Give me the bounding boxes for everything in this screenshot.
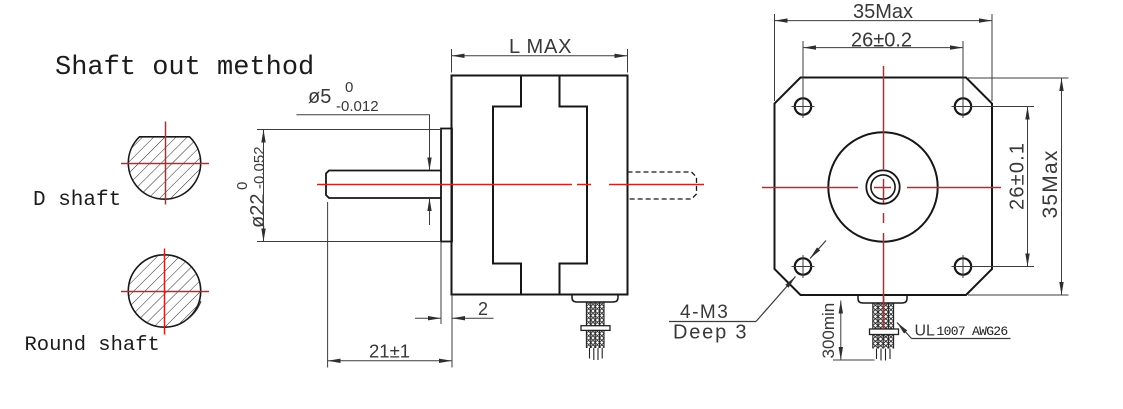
dimension 21+-1 extension line: [327, 202, 329, 368]
dimension 26+-0.1 line: [1027, 107, 1029, 267]
svg-text:Round shaft: Round shaft: [25, 334, 160, 357]
svg-text:0: 0: [234, 182, 251, 190]
front shaft: [326, 171, 441, 199]
dimension 2 extension lines: [441, 242, 452, 368]
svg-text:26±0.1: 26±0.1: [1007, 142, 1029, 210]
motor body side view: [452, 76, 628, 295]
svg-text:UL: UL: [915, 323, 936, 340]
Round shaft section outline: [128, 255, 200, 327]
dimension 26+-0.1 extension lines: [968, 107, 1035, 267]
front view centerline through wires overlay: [883, 295, 885, 329]
dimension phi22 extension lines: [257, 130, 441, 242]
Round shaft stray arc: [183, 301, 201, 322]
front view centerline vertical: [883, 66, 885, 338]
svg-text:ø22: ø22: [247, 194, 269, 228]
svg-text:Shaft out method: Shaft out method: [55, 53, 314, 83]
label 4-M3 underline: [669, 321, 756, 323]
svg-text:2: 2: [478, 299, 488, 319]
front view wire bundle braid: [873, 303, 894, 349]
side view cable band: [581, 326, 610, 331]
D shaft centerline horizontal: [121, 163, 209, 165]
svg-text:-0.012: -0.012: [336, 98, 379, 115]
D shaft hatch: [124, 122, 206, 202]
mounting hole bottom-right: [952, 255, 975, 278]
svg-text:L MAX: L MAX: [509, 36, 572, 58]
front view cable band: [870, 329, 899, 335]
shaft boss ring outer: [866, 170, 899, 203]
side view wire bundle braid: [586, 302, 604, 348]
side view centerline: [317, 184, 704, 186]
dimension 21+-1 line: [328, 360, 452, 362]
svg-text:1007 AWG26: 1007 AWG26: [937, 324, 1008, 339]
D shaft section outline: [128, 137, 200, 199]
dimension 300min line: [840, 301, 842, 361]
label 4-M3 leader lower: [756, 277, 796, 322]
front raised circle: [828, 132, 937, 241]
svg-text:21±1: 21±1: [369, 341, 410, 362]
dimension 300min bottom reference line: [833, 359, 875, 361]
front view lead wires: [877, 349, 891, 361]
svg-text:ø5: ø5: [308, 86, 331, 108]
front view centerline horizontal: [762, 187, 1001, 189]
svg-text:0: 0: [345, 79, 353, 96]
side view wire grommet: [572, 295, 618, 303]
motor body inner contour right: [560, 76, 588, 295]
dimension 35Max top extension lines: [775, 14, 993, 101]
dimension L MAX extension lines: [452, 49, 628, 73]
svg-text:4-M3: 4-M3: [680, 302, 729, 323]
label 4-M3 leader upper: [810, 241, 826, 259]
Round shaft hatch: [124, 251, 206, 332]
dimension phi5 leader: [297, 115, 430, 121]
dimension phi22 label (rotated): [234, 146, 269, 228]
label UL leader: [897, 323, 912, 339]
dimension 2 arrows: [415, 317, 441, 319]
label UL underline: [912, 338, 1011, 340]
dimension 35Max right line: [1061, 78, 1063, 295]
Round shaft centerline vertical: [164, 249, 166, 335]
shaft circle inner: [871, 175, 895, 199]
front view wire bundle lines: [873, 303, 894, 349]
front view wire grommet: [858, 295, 907, 303]
D shaft centerline vertical: [165, 122, 167, 205]
dimension 26+-0.2 line: [803, 47, 963, 49]
mounting hole top-right: [952, 95, 975, 118]
svg-text:-0.052: -0.052: [251, 146, 268, 189]
svg-text:35Max: 35Max: [853, 1, 913, 23]
svg-text:35Max: 35Max: [1039, 149, 1062, 218]
side view wire bundle lines: [586, 302, 604, 348]
svg-text:300min: 300min: [819, 303, 838, 359]
dimension 35Max top line: [775, 20, 993, 22]
svg-text:26±0.2: 26±0.2: [851, 30, 912, 52]
pilot boss: [441, 129, 452, 242]
mounting hole bottom-left: [792, 255, 815, 278]
side view lead wires: [590, 348, 603, 360]
dimension 26+-0.2 extension lines: [803, 41, 963, 107]
motor body inner contour left: [493, 76, 521, 295]
Round shaft centerline horizontal: [121, 291, 209, 293]
front view square body: [775, 78, 993, 296]
mounting hole top-left: [792, 95, 815, 118]
svg-text:Deep 3: Deep 3: [673, 322, 748, 344]
dimension phi22 line: [263, 130, 265, 242]
dimension L MAX line: [452, 55, 628, 57]
rear shaft (hidden, dashed): [628, 172, 697, 199]
svg-text:D shaft: D shaft: [33, 189, 121, 212]
dimension 35Max right extension lines: [968, 78, 1069, 295]
